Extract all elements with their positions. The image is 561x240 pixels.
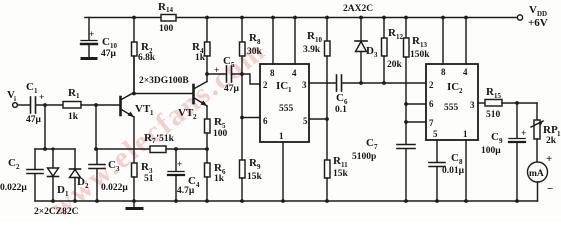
svg-text:VT: VT: [135, 103, 151, 115]
svg-text:14: 14: [166, 6, 174, 14]
svg-text:D: D: [57, 184, 65, 196]
resistor R1: [63, 87, 81, 122]
svg-text:i: i: [14, 95, 16, 103]
op-amp IC1 555: [260, 64, 309, 142]
svg-text:6: 6: [263, 116, 268, 126]
svg-text:13: 13: [420, 41, 428, 49]
capacitor C8 on pin5: [429, 140, 465, 201]
svg-text:100: 100: [213, 129, 228, 139]
ground (main): [127, 201, 142, 209]
wire to IC2 pin7: [406, 121, 426, 123]
svg-text:0.01μ: 0.01μ: [442, 166, 465, 176]
svg-text:C: C: [8, 157, 16, 169]
wire ground bus: [35, 200, 538, 202]
svg-text:1: 1: [150, 109, 154, 117]
svg-text:+: +: [177, 160, 182, 170]
resistor R11: [325, 155, 349, 201]
wire IC1 pin3 out: [309, 82, 336, 84]
svg-text:2: 2: [263, 80, 268, 90]
svg-text:1k: 1k: [214, 174, 225, 184]
svg-text:C: C: [366, 137, 374, 149]
svg-text:1k: 1k: [195, 53, 206, 63]
svg-text:3: 3: [116, 165, 120, 173]
capacitor C1: [26, 81, 44, 125]
svg-text:1k: 1k: [68, 112, 79, 122]
svg-text:VT: VT: [178, 107, 194, 119]
svg-text:1: 1: [34, 87, 38, 95]
svg-text:100: 100: [159, 24, 174, 34]
node VT1 collector junction: [132, 92, 136, 96]
svg-text:4: 4: [463, 67, 468, 77]
svg-text:2×3DG100B: 2×3DG100B: [139, 76, 189, 86]
wire to IC1 pin2: [242, 74, 260, 84]
svg-text:1: 1: [279, 131, 284, 141]
svg-text:2: 2: [429, 80, 434, 90]
svg-text:51: 51: [144, 174, 154, 184]
svg-text:12: 12: [396, 33, 404, 41]
terminal Vi input: [7, 89, 17, 107]
resistor R10: [303, 16, 330, 160]
wire C1 to R1: [36, 104, 63, 106]
svg-text:2: 2: [193, 113, 197, 121]
wire VT1 collector up: [133, 56, 135, 93]
svg-text:47μ: 47μ: [101, 49, 117, 59]
svg-text:0.022μ: 0.022μ: [0, 183, 27, 193]
svg-text:C: C: [336, 92, 344, 104]
svg-text:15: 15: [494, 92, 502, 100]
resistor R13: [404, 16, 431, 144]
resistor R7: [144, 132, 207, 153]
svg-text:510: 510: [486, 110, 501, 120]
diode D1: [48, 149, 70, 201]
ammeter mA: [528, 139, 554, 201]
svg-text:8: 8: [270, 68, 275, 78]
node pin6 tap: [404, 102, 408, 106]
node C5/R8 junction: [240, 72, 244, 76]
wire to IC2 pin6: [406, 103, 426, 105]
node VT2 collector C5 tap: [205, 72, 209, 76]
svg-text:D: D: [366, 45, 374, 57]
svg-text:+: +: [214, 66, 219, 76]
wire IC2 pin4 to rail: [465, 18, 467, 65]
wire R1 to VT1 base: [81, 104, 120, 106]
svg-text:IC: IC: [447, 81, 459, 93]
svg-text:mA: mA: [529, 169, 544, 179]
svg-text:IC: IC: [276, 80, 288, 92]
node C1-R1 junction: [43, 103, 47, 107]
svg-text:+: +: [89, 30, 94, 40]
capacitor C10: [81, 18, 118, 60]
svg-text:+: +: [546, 153, 552, 165]
svg-text:4: 4: [196, 181, 200, 189]
transistor VT1: [121, 93, 155, 118]
node R8/R9 pin6 junction: [240, 116, 244, 120]
svg-text:0.1: 0.1: [335, 105, 347, 115]
svg-text:15k: 15k: [247, 172, 263, 182]
svg-text:47μ: 47μ: [224, 84, 240, 94]
resistor R2: [132, 16, 156, 92]
svg-text:1: 1: [65, 190, 69, 198]
svg-text:1: 1: [288, 86, 292, 94]
resistor R6: [205, 149, 227, 201]
svg-text:555: 555: [444, 103, 459, 113]
svg-text:47μ: 47μ: [26, 115, 42, 125]
capacitor C4: [168, 147, 200, 201]
svg-text:3: 3: [302, 80, 307, 90]
wire IC1 pin5 to divider: [309, 118, 327, 120]
node bus junctions: [51, 199, 519, 203]
svg-text:2: 2: [459, 87, 463, 95]
svg-text:C: C: [451, 152, 459, 164]
svg-text:8: 8: [441, 67, 446, 77]
svg-text:6.8k: 6.8k: [138, 53, 156, 63]
svg-text:9: 9: [257, 163, 261, 171]
svg-text:100μ: 100μ: [481, 146, 501, 156]
wire IC1 pin8 to rail: [272, 18, 274, 65]
diode D3: [355, 16, 378, 85]
wire IC1 pin4 to rail: [294, 18, 296, 65]
svg-text:2: 2: [85, 182, 89, 190]
svg-text:1: 1: [557, 130, 561, 138]
resistor R14: [158, 1, 176, 34]
capacitor C5: [207, 55, 242, 94]
svg-text:8: 8: [459, 158, 463, 166]
svg-text:11: 11: [341, 161, 348, 169]
resistor R9: [240, 118, 263, 202]
svg-text:2×2CZ82C: 2×2CZ82C: [34, 207, 79, 217]
wire VT1 collector to VT2 base: [134, 93, 194, 95]
node input-down junction: [43, 147, 47, 151]
node R5/R6/R7/C4 junction: [205, 147, 209, 151]
wire IC2 pin8 to rail: [442, 18, 444, 65]
wire base node down to C3: [96, 105, 97, 164]
resistor R8: [240, 16, 263, 118]
svg-text:4.7μ: 4.7μ: [177, 186, 195, 196]
capacitor C3: [89, 159, 128, 201]
svg-text:555: 555: [279, 104, 294, 114]
svg-text:1: 1: [76, 92, 80, 100]
svg-text:2: 2: [16, 163, 20, 171]
terminal VDD +6V: [517, 4, 547, 29]
node base-line junction: [94, 147, 98, 151]
svg-text:C: C: [26, 81, 34, 93]
svg-text:+6V: +6V: [528, 17, 548, 29]
node pin7 tap: [404, 120, 408, 124]
capacitor C2: [0, 149, 43, 201]
op-amp IC2 555: [426, 64, 478, 140]
svg-text:2k: 2k: [546, 136, 557, 146]
svg-text:30k: 30k: [247, 47, 263, 57]
resistor R15: [478, 86, 537, 120]
resistor R4: [192, 16, 210, 82]
svg-text:’51k: ’51k: [156, 134, 175, 144]
node R10/R11 pin5 junction: [325, 117, 329, 121]
svg-text:10: 10: [315, 36, 323, 44]
svg-text:RP: RP: [543, 124, 558, 136]
diode D2: [70, 149, 90, 201]
svg-text:−: −: [547, 183, 553, 195]
svg-text:3: 3: [374, 51, 378, 59]
node D1 top junction: [51, 147, 54, 150]
svg-text:150k: 150k: [410, 50, 430, 60]
svg-text:D: D: [77, 176, 85, 188]
svg-text:3.9k: 3.9k: [303, 45, 321, 55]
wire VT2 emitter down / resistor R5: [205, 106, 228, 149]
svg-text:5: 5: [231, 61, 235, 69]
resistor R12: [382, 16, 404, 85]
svg-text:2AX2C: 2AX2C: [343, 4, 373, 14]
potentiometer RP1: [531, 103, 561, 146]
svg-text:4: 4: [292, 68, 297, 78]
svg-text:C: C: [223, 55, 231, 67]
svg-text:+: +: [521, 129, 526, 139]
watermark: [44, 34, 272, 225]
svg-text:3: 3: [470, 100, 475, 110]
svg-text:5: 5: [303, 116, 308, 126]
svg-text:5100p: 5100p: [352, 152, 376, 162]
svg-text:9: 9: [499, 137, 503, 145]
capacitor C6: [335, 75, 426, 115]
capacitor C7: [352, 137, 415, 201]
wire C2/D1/D2 top bus: [35, 148, 75, 150]
svg-text:0.022μ: 0.022μ: [101, 183, 128, 193]
svg-text:C: C: [108, 159, 116, 171]
wire Vi to C1: [18, 104, 31, 106]
wire to IC1 pin6: [242, 117, 260, 119]
svg-text:6: 6: [429, 99, 434, 109]
svg-text:20k: 20k: [387, 60, 403, 70]
svg-text:V: V: [529, 4, 537, 16]
wire IC2 pin1 to ground bus: [465, 140, 467, 201]
wire VT1 emitter down / resistor R3: [132, 117, 154, 201]
svg-text:5: 5: [433, 129, 438, 139]
capacitor C9: [481, 101, 526, 201]
svg-text:1: 1: [463, 129, 468, 139]
wire top VDD rail: [85, 17, 517, 19]
svg-text:7: 7: [374, 143, 378, 151]
svg-text:7: 7: [429, 118, 434, 128]
transistor VT2: [178, 82, 207, 122]
wire IC1 pin1 to ground bus: [282, 142, 284, 201]
svg-text:15k: 15k: [333, 169, 349, 179]
svg-text:8: 8: [257, 38, 261, 46]
svg-text:www.elecfans.com: www.elecfans.com: [44, 34, 272, 222]
wire input node down: [44, 105, 46, 149]
svg-text:C: C: [102, 36, 110, 48]
svg-text:C: C: [491, 131, 499, 143]
wire R7 feedback run: [96, 148, 150, 150]
node R1-base junction: [94, 103, 98, 107]
svg-text:+: +: [39, 93, 44, 103]
ground (C10): [82, 57, 96, 60]
